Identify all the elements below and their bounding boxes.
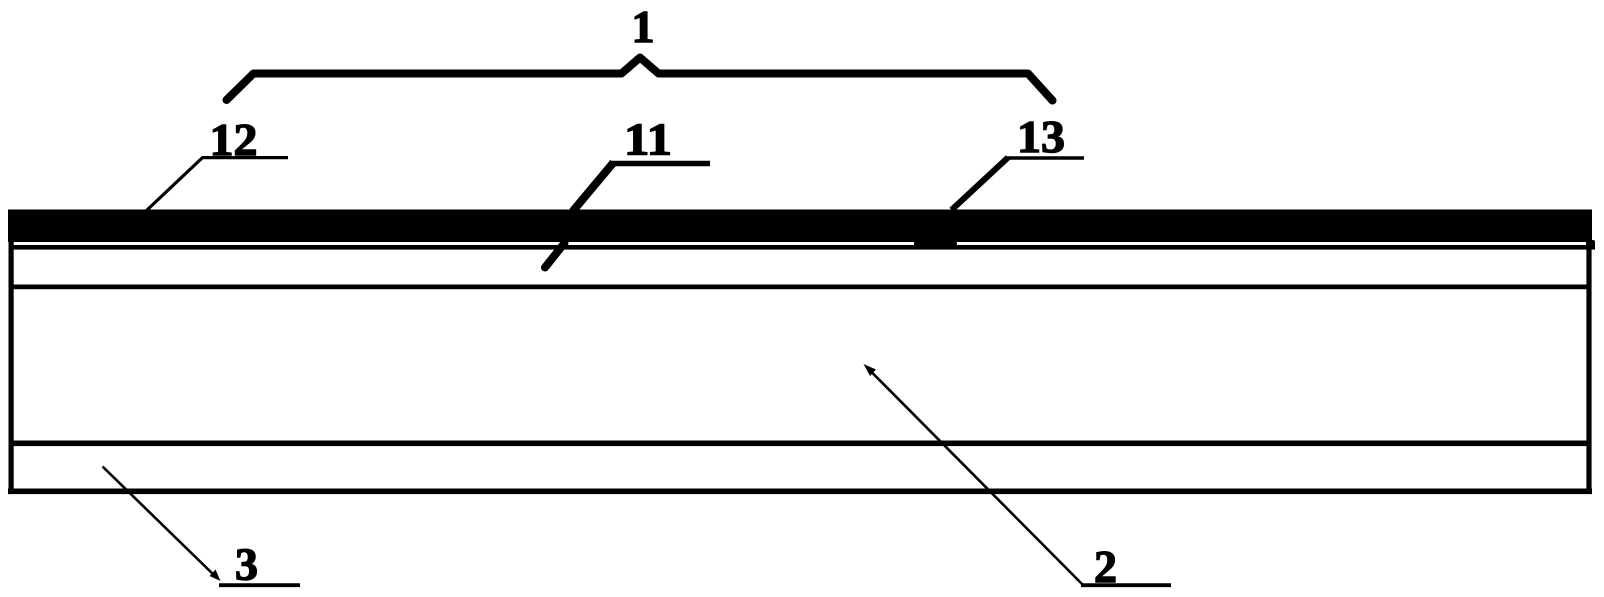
svg-text:11: 11 — [624, 114, 672, 165]
right vertical edge — [1586, 242, 1591, 494]
brace for label 1 — [227, 58, 1053, 101]
leader line for 11 (tip below bar) — [545, 243, 565, 268]
leader line for 2 (diagonal) — [868, 369, 1082, 585]
leader line for 2 (underline) — [1081, 583, 1171, 587]
leader line for 13 (underline) — [1007, 156, 1084, 160]
svg-text:1: 1 — [632, 1, 655, 52]
svg-text:3: 3 — [235, 539, 258, 590]
arrowhead of leader 3 — [210, 570, 221, 582]
leader line for 12 — [147, 158, 289, 211]
leader line for 13 (diagonal) — [952, 158, 1009, 211]
left vertical edge — [9, 210, 14, 495]
wire: short dash on thin line below label 13 — [914, 242, 957, 248]
layer 11 thin line under bar — [13, 245, 1595, 250]
boundary line between layer 2 and layer 3 — [11, 441, 1589, 447]
node: right corner blob joining bar and thin line — [1586, 240, 1595, 249]
leader line for 3 (diagonal) — [103, 467, 217, 578]
layer 12 black bar (top coating) — [8, 210, 1592, 243]
leader line for 11 (diagonal above bar) — [573, 163, 614, 212]
arrowhead of leader 2 — [864, 364, 877, 376]
boundary line between layer 1 stack and layer 2 — [11, 285, 1589, 290]
svg-text:13: 13 — [1017, 111, 1065, 162]
leader line for 3 (underline) — [219, 583, 300, 587]
bottom edge line of layer 3 — [8, 489, 1592, 495]
leader line for 11 (underline) — [612, 161, 710, 167]
